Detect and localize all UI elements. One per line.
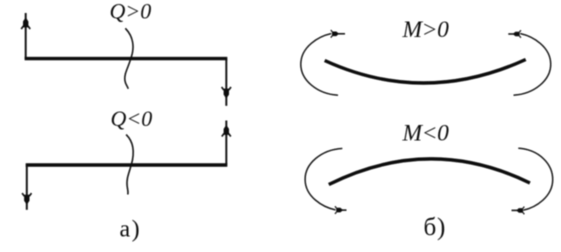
svg-text:M>0: M>0	[402, 17, 450, 43]
svg-text:а): а)	[120, 217, 142, 243]
svg-text:M<0: M<0	[402, 121, 450, 147]
svg-text:Q>0: Q>0	[110, 0, 152, 24]
svg-text:б): б)	[424, 214, 447, 241]
svg-text:Q<0: Q<0	[111, 106, 153, 131]
